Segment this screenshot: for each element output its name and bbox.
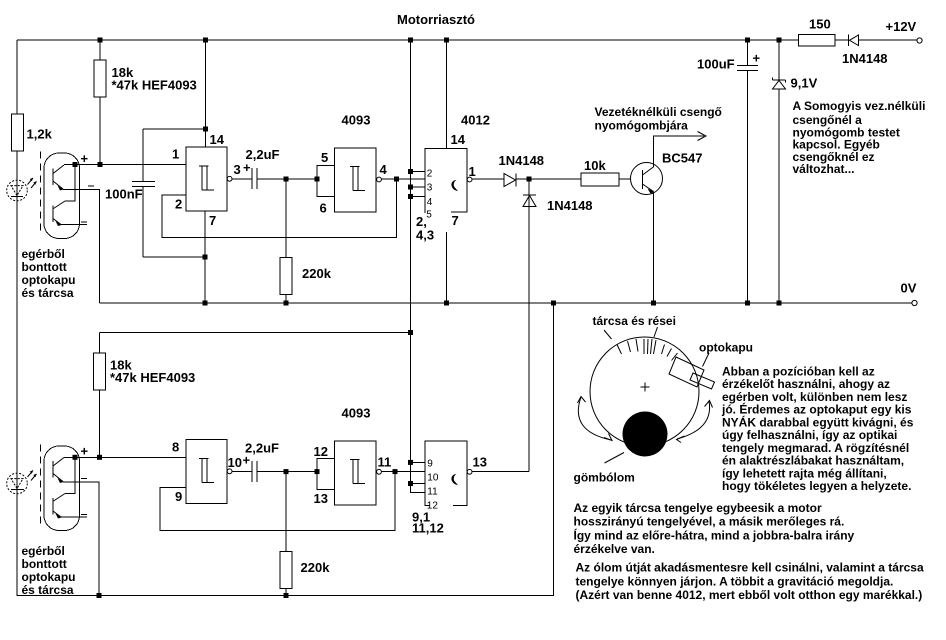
svg-text:bonttott: bonttott: [22, 260, 67, 274]
svg-text:13: 13: [314, 491, 328, 506]
svg-text:optokapu: optokapu: [699, 341, 753, 355]
IC U2 4012 gate B body: [425, 441, 467, 506]
U1B body: [335, 148, 377, 212]
wire Q4 emitter stub: [61, 224, 87, 226]
svg-text:4: 4: [427, 197, 433, 208]
op-amp U1D 4093 gate (pins 12,13 out 11) input box: [317, 459, 335, 490]
U2 gate A output bubble pin1: [467, 177, 472, 182]
capacitor C1 100nF: [142, 129, 144, 182]
LED D4 (optocoupler emitter diode): [7, 180, 28, 201]
svg-text:A Somogyis vez.nélküli: A Somogyis vez.nélküli: [793, 99, 926, 113]
resistor R2 18k: [99, 40, 101, 60]
svg-text:hosszirányú tengelyével, a más: hosszirányú tengelyével, a másik merőleg…: [574, 515, 845, 529]
rotation arrow right: [677, 401, 710, 439]
U1D schmitt symbol: [350, 459, 360, 461]
callout line optokapu: [703, 353, 710, 367]
phototransistor Q4 collector: [54, 201, 66, 209]
U1D body: [335, 441, 377, 505]
wire U1A pin2 feedback loop: [162, 179, 397, 238]
zener diode D6 9,1V: [778, 40, 780, 80]
svg-text:11: 11: [378, 455, 392, 470]
svg-text:1N4148: 1N4148: [547, 198, 593, 213]
callout line to disc: [604, 330, 612, 339]
wire D1 to node K: [516, 178, 581, 180]
U2 gate B nand crescent: [451, 474, 458, 485]
phototransistor Q3 minus label: [88, 185, 94, 187]
svg-text:Az ólom útját akadásmentesre k: Az ólom útját akadásmentesre kell csinál…: [576, 561, 924, 575]
svg-text:1N4148: 1N4148: [842, 51, 888, 66]
wire U1B out to U2: [382, 178, 426, 180]
wire LED D4 to LED D5 (long left vertical): [16, 201, 18, 494]
U1A schmitt symbol: [199, 165, 209, 167]
svg-text:*47k HEF4093: *47k HEF4093: [110, 370, 195, 385]
disc tick marks: [617, 345, 622, 355]
phototransistor Q3 base bar: [52, 169, 54, 186]
resistor R7 220k lower: [285, 472, 287, 552]
svg-text:2: 2: [175, 197, 182, 212]
wire Q5 emitter to lower rail: [63, 482, 99, 596]
wire U2 pin4 stub: [411, 196, 426, 198]
svg-text:+: +: [81, 444, 89, 459]
svg-text:1: 1: [469, 164, 476, 179]
wire node plus to chip1 pin1: [64, 164, 186, 166]
svg-text:10k: 10k: [584, 158, 606, 173]
svg-text:változhat...: változhat...: [793, 162, 855, 176]
wire Q1 emitter to 0V: [653, 192, 655, 304]
U2 gate A nand crescent: [451, 180, 458, 191]
wire U2 out to D1: [472, 178, 504, 180]
svg-text:11,12: 11,12: [412, 521, 444, 536]
disc center cross: [641, 386, 650, 388]
wire Q6 emitter stub: [61, 516, 87, 518]
svg-text:2,2uF: 2,2uF: [246, 147, 280, 162]
optokapu sensor arm: [690, 373, 715, 389]
phototransistor Q5 emitter: [53, 474, 63, 482]
rotation arrow left: [578, 397, 611, 440]
svg-text:6: 6: [320, 201, 327, 216]
LED D5 (optocoupler 2 diode): [7, 473, 28, 494]
svg-text:1N4148: 1N4148: [499, 153, 545, 168]
svg-text:Az egyik tárcsa tengelye egybe: Az egyik tárcsa tengelye egybeesik a mot…: [574, 501, 822, 515]
svg-text:12: 12: [314, 444, 328, 459]
phototransistor Q5 collector: [53, 458, 64, 467]
capacitor C2 2,2uF: [232, 178, 252, 180]
resistor R4 10k: [581, 173, 619, 186]
svg-text:9: 9: [175, 489, 182, 504]
optocoupler OK2 body: [44, 446, 80, 531]
phototransistor Q4 base bar: [52, 206, 54, 223]
svg-text:150: 150: [809, 17, 831, 32]
phototransistor Q3 collector: [53, 165, 64, 174]
svg-text:Vezetéknélküli csengő: Vezetéknélküli csengő: [595, 105, 722, 119]
bell arrowhead: [698, 132, 707, 141]
svg-text:7: 7: [209, 213, 216, 228]
svg-text:3: 3: [427, 183, 433, 194]
svg-text:5: 5: [321, 150, 328, 165]
wire VDD branch to pin14 and C1: [205, 40, 207, 147]
U2 gate B output bubble pin13: [467, 469, 472, 474]
U1A output bubble pin3: [227, 176, 232, 181]
wire R1 to LED D4: [16, 151, 18, 201]
svg-text:1,2k: 1,2k: [27, 127, 53, 142]
U1B schmitt symbol: [350, 166, 360, 168]
diode D1 1N4148: [504, 174, 516, 187]
svg-text:10: 10: [228, 455, 242, 470]
svg-text:+12V: +12V: [886, 19, 917, 34]
wire VDD feed to lower section: [100, 332, 411, 334]
svg-text:nyomógombjára: nyomógombjára: [595, 119, 689, 133]
svg-text:bonttott: bonttott: [22, 557, 67, 571]
IC U2 4012 gate A body: [425, 149, 467, 214]
U1C output bubble pin10: [227, 469, 232, 474]
svg-text:9: 9: [427, 459, 433, 470]
phototransistor Q6 base bar: [52, 498, 54, 515]
svg-text:4093: 4093: [342, 406, 371, 421]
optocoupler OK2 dashed separator: [40, 445, 42, 528]
disc circle: [590, 337, 699, 446]
svg-text:+: +: [81, 151, 89, 166]
svg-text:5: 5: [426, 210, 432, 221]
U1C schmitt symbol: [199, 458, 209, 460]
svg-text:tárcsa és rései: tárcsa és rései: [593, 314, 676, 328]
phototransistor Q6 collector: [54, 494, 66, 502]
callout line gombolom: [605, 453, 625, 464]
svg-text:NYÁK darabbal együtt kivágni,: NYÁK darabbal együtt kivágni, és: [722, 414, 914, 429]
svg-text:érzékelve van.: érzékelve van.: [574, 542, 655, 556]
svg-text:optokapu: optokapu: [22, 570, 76, 584]
svg-text:*47k HEF4093: *47k HEF4093: [112, 78, 197, 93]
capacitor C3 100uF: [747, 40, 749, 66]
optocoupler OK1 body: [44, 153, 80, 239]
svg-text:+: +: [753, 51, 761, 66]
svg-text:220k: 220k: [302, 266, 332, 281]
wire VDD distribution vertical: [411, 40, 426, 493]
U1D output bubble pin11: [377, 469, 382, 474]
svg-text:8: 8: [172, 440, 179, 455]
svg-text:1: 1: [172, 147, 179, 162]
wire D3 to +12V terminal: [859, 39, 918, 41]
terminal +12V: [917, 38, 922, 43]
svg-text:+: +: [243, 160, 251, 175]
wire Q3 emitter to 0V rail: [63, 190, 100, 304]
svg-text:egérből: egérből: [22, 247, 65, 261]
callout line to slots: [654, 327, 658, 337]
svg-text:és tárcsa: és tárcsa: [22, 286, 74, 300]
phototransistor Q4 minus label: [81, 221, 87, 223]
wire U2 pin9 stub: [411, 461, 426, 463]
resistor R3 220k: [285, 179, 287, 258]
wire U1C pin9 feedback loop: [160, 472, 395, 531]
lead ball: [623, 412, 668, 457]
svg-text:100uF: 100uF: [697, 57, 735, 72]
svg-text:Így mind az előre-hátra, mind: Így mind az előre-hátra, mind a jobbra-b…: [574, 527, 855, 542]
svg-text:optokapu: optokapu: [22, 273, 76, 287]
svg-text:7: 7: [452, 213, 459, 228]
capacitor C4 2,2uF lower: [232, 471, 252, 473]
svg-text:4,3: 4,3: [416, 228, 434, 243]
wire U2 gate B out to D2: [472, 471, 529, 473]
wire +V top rail: [17, 39, 799, 41]
svg-text:10: 10: [427, 473, 439, 484]
wire R4 to Q1 base: [619, 178, 631, 180]
wire U2 pin7 to 0V: [446, 232, 448, 303]
wire OK2 internal collector link: [65, 457, 75, 493]
diode D3 1N4148: [848, 35, 850, 47]
terminal 0V: [912, 300, 917, 305]
U1B output bubble pin4: [377, 177, 382, 182]
wire Q1 collector to bell arrow: [654, 136, 705, 167]
svg-text:3: 3: [234, 162, 241, 177]
svg-text:13: 13: [473, 455, 487, 470]
svg-text:egérből: egérből: [22, 544, 65, 558]
wire 0V rail: [100, 302, 913, 304]
resistor R1 1,2k: [12, 114, 24, 151]
phototransistor Q5 base bar: [52, 461, 54, 478]
phototransistor Q6 minus label: [81, 514, 87, 516]
wire U1A pin7 to 0V: [204, 211, 206, 303]
svg-text:14: 14: [451, 132, 466, 147]
wire R5 to D3: [835, 39, 849, 41]
svg-text:4093: 4093: [342, 113, 371, 128]
op-amp U1B 4093 gate (pins 5,6 out 4) input box: [317, 166, 335, 197]
wire U2 pin3 stub: [411, 186, 426, 188]
svg-text:11: 11: [427, 487, 438, 498]
optocoupler OK1 dashed separator: [40, 152, 42, 235]
wire U2 pin14 from rail: [446, 40, 448, 149]
svg-text:tengelye könnyen járjon. A töb: tengelye könnyen járjon. A többit a grav…: [576, 574, 894, 588]
wire C1 bottom to pin7 node: [143, 256, 205, 258]
svg-text:BC547: BC547: [662, 151, 702, 166]
svg-text:2: 2: [427, 169, 433, 180]
op-amp U1A 4093 gate (pins 1,2 out 3): [186, 147, 227, 211]
svg-text:4012: 4012: [461, 113, 490, 128]
wire left drop from rail: [16, 40, 18, 114]
svg-text:és tárcsa: és tárcsa: [22, 583, 74, 597]
svg-text:4: 4: [380, 162, 388, 177]
svg-text:gömbólom: gömbólom: [574, 471, 635, 485]
wire LED D5 to lower rail: [17, 303, 554, 596]
phototransistor Q6 emitter: [53, 511, 61, 517]
op-amp U1C 4093 gate (pins 8,9 out 10): [186, 440, 227, 504]
phototransistor Q3 emitter: [53, 181, 63, 189]
wire OK1 internal collector link: [65, 165, 75, 202]
svg-text:0V: 0V: [901, 281, 917, 296]
transistor Q1 BC547: [631, 163, 663, 195]
svg-text:Motorriasztó: Motorriasztó: [397, 12, 475, 27]
svg-text:2,2uF: 2,2uF: [245, 441, 279, 456]
disc slots: [643, 339, 645, 354]
optokapu sensor body: [669, 357, 704, 387]
resistor R5 150: [799, 35, 836, 47]
phototransistor Q5 minus label: [81, 478, 87, 480]
svg-text:(Azért van benne 4012, mert eb: (Azért van benne 4012, mert ebből volt o…: [576, 588, 923, 602]
svg-text:100nF: 100nF: [105, 187, 143, 202]
phototransistor Q4 emitter: [53, 219, 61, 225]
resistor R6 18k lower: [99, 333, 101, 354]
svg-text:9,1V: 9,1V: [791, 76, 818, 91]
svg-text:220k: 220k: [301, 560, 331, 575]
svg-text:hogy tökéletes legyen a helyze: hogy tökéletes legyen a helyzete.: [722, 479, 911, 493]
diode D2 1N4148 vertical: [528, 179, 530, 472]
wire U1D out to U2 gate B: [382, 471, 426, 473]
wire U2 pin2 stub: [411, 171, 426, 173]
wire U2 pin11 stub: [411, 483, 426, 485]
wire node plus2 to chip pin8: [64, 456, 186, 458]
svg-text:14: 14: [210, 132, 225, 147]
